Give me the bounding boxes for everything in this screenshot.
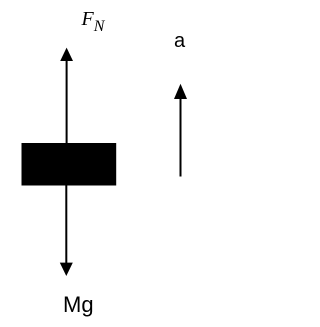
label F_N <box>82 9 105 35</box>
label a <box>174 31 185 51</box>
wire: acceleration a arrow shaft (up) <box>180 98 182 177</box>
arrowhead a <box>174 84 187 99</box>
block (mass M) <box>22 143 117 186</box>
wire: normal force F_N arrow shaft (up) <box>66 60 68 144</box>
arrowhead Mg <box>60 263 73 276</box>
wire: weight Mg arrow shaft (down) <box>65 186 67 264</box>
arrowhead F_N <box>60 48 73 61</box>
label Mg <box>63 294 94 316</box>
